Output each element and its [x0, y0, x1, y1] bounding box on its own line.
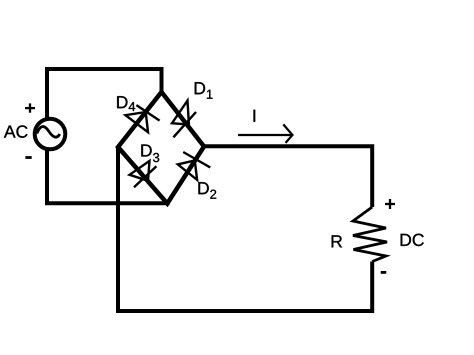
diode D3 — [130, 161, 157, 187]
label D3 — [141, 144, 159, 162]
label AC — [4, 125, 28, 137]
label + (AC) — [25, 103, 35, 112]
AC sine symbol — [37, 127, 60, 138]
AC source — [35, 119, 66, 150]
wire: AC top to diamond top vertex — [47, 69, 162, 118]
label D4 — [117, 96, 135, 111]
wire: left vertex down, bottom run, up to resistor bottom — [118, 147, 372, 311]
label I — [254, 110, 256, 122]
diode D2 — [178, 152, 211, 180]
resistor R zigzag — [353, 207, 387, 262]
current arrow I — [238, 124, 293, 142]
label D1 — [195, 82, 213, 99]
diode bridge diamond wires — [118, 92, 204, 204]
wire: right vertex to resistor top — [204, 146, 372, 207]
diode D1 — [172, 101, 196, 138]
label - (AC) — [25, 156, 31, 159]
label + (DC) — [385, 199, 395, 209]
label R — [332, 235, 342, 247]
diode D4 — [126, 105, 160, 132]
label D2 — [198, 182, 216, 199]
label - (DC) — [381, 271, 387, 274]
label DC — [401, 234, 424, 246]
wire: AC bottom to diamond bottom vertex — [47, 151, 170, 204]
